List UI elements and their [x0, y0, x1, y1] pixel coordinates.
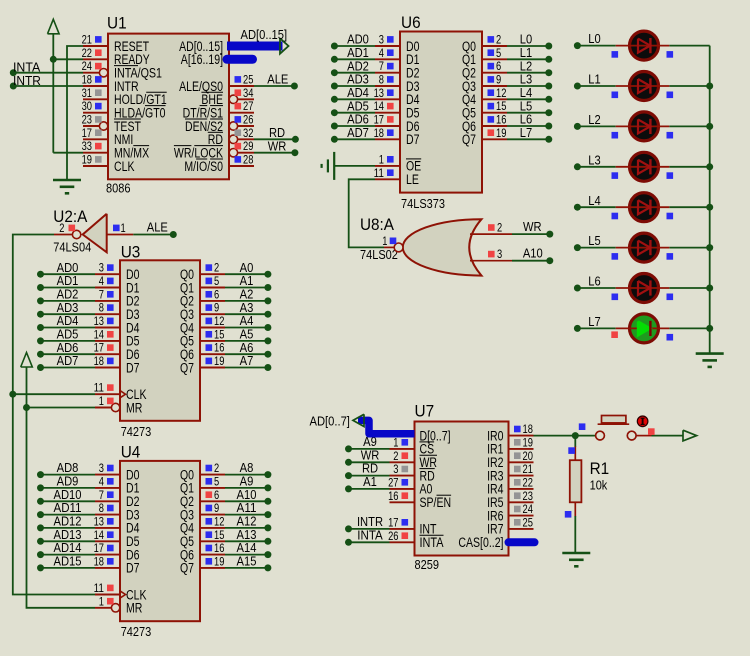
svg-text:AD15: AD15: [54, 554, 82, 569]
svg-text:5: 5: [214, 274, 219, 288]
svg-text:U6: U6: [401, 13, 421, 32]
svg-text:U1: U1: [107, 14, 127, 33]
svg-text:18: 18: [82, 73, 93, 87]
svg-text:AD[0..15]: AD[0..15]: [241, 27, 288, 42]
svg-text:8: 8: [99, 501, 104, 515]
svg-text:19: 19: [214, 554, 225, 568]
svg-text:A10: A10: [523, 246, 543, 261]
svg-text:27: 27: [388, 475, 399, 489]
svg-text:20: 20: [523, 449, 534, 463]
svg-text:4: 4: [99, 474, 104, 488]
svg-text:1: 1: [382, 234, 387, 248]
svg-text:2: 2: [214, 461, 219, 475]
svg-text:18: 18: [94, 554, 105, 568]
svg-text:13: 13: [94, 514, 105, 528]
svg-text:AD7: AD7: [347, 125, 369, 140]
svg-text:8: 8: [379, 73, 384, 87]
svg-text:D7: D7: [126, 561, 140, 576]
svg-text:6: 6: [214, 287, 219, 301]
svg-text:L3: L3: [588, 152, 600, 167]
svg-text:26: 26: [243, 113, 254, 127]
svg-text:4: 4: [99, 274, 104, 288]
svg-text:A7: A7: [240, 353, 254, 368]
svg-text:4: 4: [379, 46, 384, 60]
svg-text:74LS04: 74LS04: [53, 241, 91, 255]
svg-text:U3: U3: [121, 243, 141, 262]
svg-text:11: 11: [94, 381, 105, 395]
svg-text:L4: L4: [588, 193, 600, 208]
svg-text:L5: L5: [588, 233, 600, 248]
svg-text:AD[0..7]: AD[0..7]: [310, 414, 350, 429]
svg-text:3: 3: [99, 261, 104, 275]
svg-text:16: 16: [214, 341, 225, 355]
svg-text:11: 11: [94, 581, 105, 595]
svg-text:31: 31: [82, 86, 93, 100]
svg-text:3: 3: [497, 247, 502, 261]
svg-text:LE: LE: [406, 172, 419, 187]
svg-text:D7: D7: [406, 132, 420, 147]
svg-text:74273: 74273: [121, 425, 152, 439]
svg-text:3: 3: [99, 461, 104, 475]
svg-text:INTA: INTA: [357, 527, 383, 542]
svg-text:16: 16: [214, 541, 225, 555]
svg-text:12: 12: [496, 86, 507, 100]
svg-text:9: 9: [496, 73, 501, 87]
svg-text:17: 17: [374, 113, 385, 127]
svg-text:L0: L0: [588, 31, 600, 46]
svg-text:5: 5: [496, 46, 501, 60]
svg-text:7: 7: [99, 287, 104, 301]
svg-text:14: 14: [94, 327, 105, 341]
svg-text:L6: L6: [588, 274, 600, 289]
svg-text:9: 9: [214, 301, 219, 315]
svg-text:21: 21: [523, 462, 534, 476]
svg-text:14: 14: [374, 99, 385, 113]
svg-text:15: 15: [214, 528, 225, 542]
svg-text:INTR: INTR: [13, 73, 41, 88]
svg-text:17: 17: [94, 541, 105, 555]
svg-text:L7: L7: [588, 314, 600, 329]
svg-text:18: 18: [374, 126, 385, 140]
svg-text:M/IO/S0: M/IO/S0: [184, 159, 223, 174]
svg-text:3: 3: [393, 462, 398, 476]
svg-text:18: 18: [94, 354, 105, 368]
svg-text:18: 18: [523, 422, 534, 436]
svg-text:SP/EN: SP/EN: [420, 495, 452, 510]
svg-text:27: 27: [243, 99, 254, 113]
svg-text:15: 15: [214, 327, 225, 341]
svg-text:CAS[0..2]: CAS[0..2]: [458, 535, 503, 550]
svg-text:7: 7: [379, 59, 384, 73]
svg-text:3: 3: [379, 33, 384, 47]
svg-text:1: 1: [99, 594, 104, 608]
svg-text:A1: A1: [363, 474, 377, 489]
svg-text:28: 28: [243, 153, 254, 167]
svg-text:14: 14: [94, 528, 105, 542]
svg-text:22: 22: [82, 46, 93, 60]
svg-text:26: 26: [388, 529, 399, 543]
svg-text:6: 6: [496, 59, 501, 73]
svg-text:24: 24: [523, 502, 534, 516]
svg-text:12: 12: [214, 514, 225, 528]
svg-text:1: 1: [99, 394, 104, 408]
svg-text:19: 19: [82, 153, 93, 167]
svg-text:13: 13: [374, 86, 385, 100]
svg-text:U8:A: U8:A: [360, 215, 395, 234]
svg-text:2: 2: [59, 221, 64, 235]
svg-text:25: 25: [523, 515, 534, 529]
svg-text:8259: 8259: [415, 558, 440, 572]
svg-text:WR: WR: [268, 138, 287, 153]
svg-text:19: 19: [214, 354, 225, 368]
svg-text:ALE: ALE: [267, 72, 288, 87]
svg-text:19: 19: [496, 126, 507, 140]
svg-text:32: 32: [243, 126, 254, 140]
svg-text:A15: A15: [237, 554, 257, 569]
svg-text:2: 2: [497, 221, 502, 235]
svg-text:MR: MR: [126, 400, 143, 415]
svg-text:L7: L7: [520, 125, 532, 140]
svg-text:11: 11: [374, 166, 385, 180]
svg-text:2: 2: [214, 261, 219, 275]
svg-text:33: 33: [82, 139, 93, 153]
svg-text:10k: 10k: [590, 479, 608, 493]
svg-text:R1: R1: [590, 459, 610, 478]
svg-text:INTA: INTA: [420, 535, 444, 550]
svg-text:5: 5: [214, 474, 219, 488]
svg-text:74LS02: 74LS02: [360, 248, 398, 262]
svg-text:L2: L2: [588, 112, 600, 127]
svg-text:25: 25: [243, 73, 254, 87]
svg-text:ALE: ALE: [147, 220, 168, 235]
svg-text:6: 6: [214, 488, 219, 502]
svg-text:17: 17: [94, 341, 105, 355]
svg-text:21: 21: [82, 33, 93, 47]
svg-text:U4: U4: [121, 443, 141, 462]
svg-text:WR: WR: [523, 219, 542, 234]
svg-text:22: 22: [523, 475, 534, 489]
svg-text:U7: U7: [415, 401, 435, 420]
svg-text:15: 15: [496, 99, 507, 113]
svg-text:A[16..19]: A[16..19]: [181, 52, 223, 67]
svg-text:23: 23: [82, 113, 93, 127]
svg-text:8: 8: [99, 301, 104, 315]
svg-text:2: 2: [393, 449, 398, 463]
svg-text:30: 30: [82, 99, 93, 113]
svg-text:L1: L1: [588, 72, 600, 87]
svg-text:16: 16: [496, 113, 507, 127]
svg-text:74LS373: 74LS373: [401, 197, 445, 211]
svg-text:7: 7: [99, 488, 104, 502]
svg-text:23: 23: [523, 489, 534, 503]
svg-text:MR: MR: [126, 601, 143, 616]
svg-text:D7: D7: [126, 360, 140, 375]
svg-text:8086: 8086: [106, 181, 131, 195]
svg-text:19: 19: [523, 435, 534, 449]
svg-text:Q7: Q7: [180, 360, 194, 375]
svg-text:1: 1: [379, 152, 384, 166]
svg-text:24: 24: [82, 59, 93, 73]
svg-text:Q7: Q7: [462, 132, 476, 147]
svg-text:2: 2: [496, 33, 501, 47]
svg-text:17: 17: [82, 126, 93, 140]
svg-text:9: 9: [214, 501, 219, 515]
svg-text:74273: 74273: [121, 625, 152, 639]
svg-text:17: 17: [388, 515, 399, 529]
svg-text:12: 12: [214, 314, 225, 328]
svg-text:Q7: Q7: [180, 561, 194, 576]
svg-text:CLK: CLK: [114, 159, 135, 174]
svg-text:1: 1: [121, 221, 126, 235]
svg-text:34: 34: [243, 86, 254, 100]
svg-text:16: 16: [388, 489, 399, 503]
svg-text:AD7: AD7: [57, 353, 79, 368]
svg-text:13: 13: [94, 314, 105, 328]
svg-text:29: 29: [243, 139, 254, 153]
